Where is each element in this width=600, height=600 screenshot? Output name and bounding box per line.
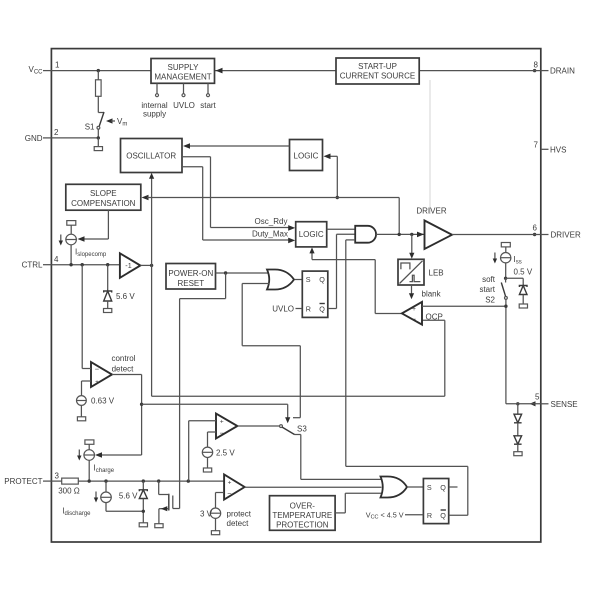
block LOGIC U1 (top) <box>290 140 323 171</box>
svg-text:−: − <box>227 489 232 498</box>
svg-text:detect: detect <box>227 519 250 528</box>
node PROTECT junctions <box>88 479 91 482</box>
current source Icharge <box>77 440 115 481</box>
terminal start <box>200 83 216 110</box>
wire CTRL <box>51 264 120 266</box>
wire OCP output to LOGIC2 bottom <box>309 247 402 313</box>
svg-text:2: 2 <box>54 128 59 137</box>
svg-text:DRAIN: DRAIN <box>550 67 575 76</box>
current source Islopecomp <box>59 221 107 265</box>
svg-text:OVER-: OVER- <box>290 502 316 511</box>
ground symbol below 0.63V source <box>77 417 85 421</box>
svg-text:Iss: Iss <box>514 255 522 265</box>
or-gate OR2 (protection set) <box>381 477 408 498</box>
ground below S1 <box>94 138 102 151</box>
node POR output branch <box>224 271 227 274</box>
svg-text:5: 5 <box>535 392 540 401</box>
svg-text:Q: Q <box>319 304 325 313</box>
rail symbol below zener D2 <box>519 304 527 308</box>
switch S1 <box>85 112 104 138</box>
svg-text:1: 1 <box>55 60 60 69</box>
svg-text:Q: Q <box>440 511 446 520</box>
label VCC < 4.5 V at FF2 R <box>366 511 424 521</box>
svg-text:300 Ω: 300 Ω <box>58 487 80 496</box>
or-gate OR1 (UVLO set) <box>267 270 294 290</box>
amplifier -1 <box>120 253 152 277</box>
ground symbol below S1 <box>94 147 102 151</box>
resistor R2 300 ohm body <box>62 478 79 484</box>
wire S3 contact to OR1 lower input <box>242 284 300 418</box>
pin 7 HVS <box>534 140 567 154</box>
wire oscillator control (vertical) <box>149 173 154 396</box>
svg-text:S1: S1 <box>85 123 95 132</box>
node S2 / OCP+ junction <box>504 305 507 308</box>
svg-text:UVLO: UVLO <box>272 305 294 314</box>
svg-text:start: start <box>200 101 216 110</box>
node -1 output / osc feed junction <box>150 264 153 267</box>
svg-text:VCC < 4.5 V: VCC < 4.5 V <box>366 511 404 521</box>
svg-text:SLOPE: SLOPE <box>90 189 117 198</box>
svg-text:blank: blank <box>422 290 442 299</box>
wire faint vertical artifact right of start-up source <box>429 80 431 214</box>
resistor R1 body <box>96 80 102 97</box>
svg-text:0.5 V: 0.5 V <box>514 268 533 277</box>
wire Q to S3 actuator <box>142 404 291 423</box>
wire 2.5V comp output to S3 <box>237 425 279 427</box>
svg-text:SUPPLY: SUPPLY <box>168 63 200 72</box>
ground symbol below 3V source <box>211 531 219 535</box>
svg-text:8: 8 <box>534 60 539 69</box>
svg-text:GND: GND <box>25 134 43 143</box>
zener 0.5V clamp <box>506 268 533 309</box>
wire S3 to OR2 input 1 <box>301 478 382 480</box>
ground symbol below zener D1 <box>104 309 112 313</box>
current source Idischarge <box>62 481 143 517</box>
svg-text:CTRL: CTRL <box>22 261 43 270</box>
pin 5 SENSE <box>516 392 578 409</box>
svg-text:R: R <box>427 511 432 520</box>
ground symbol below zener D5 <box>139 523 147 527</box>
source 0.63V <box>77 381 115 421</box>
comparator protect detect <box>224 475 252 529</box>
block LEB <box>398 234 444 285</box>
svg-text:POWER-ON: POWER-ON <box>168 269 213 278</box>
svg-text:HVS: HVS <box>550 145 566 154</box>
svg-text:LOGIC: LOGIC <box>299 230 324 239</box>
wire feedback into LOGIC1 right <box>324 154 338 198</box>
ground symbol below transistor Q1 <box>155 524 163 528</box>
resistor 300 ohm <box>51 478 79 495</box>
svg-text:7: 7 <box>534 140 539 149</box>
svg-text:control: control <box>111 354 135 363</box>
wire control detect minus to CTRL <box>82 265 91 369</box>
svg-text:0.63 V: 0.63 V <box>91 397 115 406</box>
svg-text:LEB: LEB <box>429 269 444 278</box>
wire GND <box>51 137 98 139</box>
zener 5.6V at CTRL <box>104 265 136 313</box>
svg-text:6: 6 <box>533 224 538 233</box>
block OVER-TEMPERATURE PROTECTION <box>270 496 336 531</box>
svg-text:Icharge: Icharge <box>94 464 115 474</box>
svg-text:SENSE: SENSE <box>551 400 578 409</box>
svg-text:3 V: 3 V <box>200 510 213 519</box>
node driver line junctions <box>398 233 401 236</box>
block SLOPE COMPENSATION <box>66 184 141 210</box>
node CTRL junctions <box>69 263 72 266</box>
wire OCP plus to soft-start node <box>422 305 506 307</box>
svg-text:Osc_Rdy: Osc_Rdy <box>255 217 288 226</box>
wire FF2 Q stub <box>449 486 458 488</box>
pin 3 PROTECT <box>4 471 59 486</box>
node control detect out junction <box>140 403 143 406</box>
svg-text:+: + <box>95 379 99 386</box>
svg-text:OSCILLATOR: OSCILLATOR <box>126 152 176 161</box>
svg-text:DRIVER: DRIVER <box>416 207 446 216</box>
svg-text:+: + <box>228 479 232 486</box>
wire Osc_Rdy <box>182 157 295 231</box>
svg-text:VCC: VCC <box>28 65 43 75</box>
current source Iss <box>493 243 522 279</box>
flip-flop FF1 (UVLO latch) <box>302 271 328 317</box>
wire P oscillator net to OCP minus <box>152 320 445 396</box>
source 2.5V <box>202 432 235 472</box>
wire OR1 to FF1 S <box>295 279 303 281</box>
wire VCC rail <box>51 70 151 72</box>
block LOGIC U2 (pwm) <box>296 222 327 247</box>
svg-text:−: − <box>95 365 100 374</box>
terminal internal supply <box>141 83 167 118</box>
wire PROTECT net <box>78 480 224 482</box>
svg-text:S: S <box>427 483 432 492</box>
wire LOGIC2 out to AND input 1 <box>327 228 356 230</box>
node GND junction <box>97 136 100 139</box>
svg-text:OCP: OCP <box>426 313 443 322</box>
svg-text:RESET: RESET <box>177 279 204 288</box>
svg-text:PROTECT: PROTECT <box>4 477 42 486</box>
svg-text:Q: Q <box>319 275 325 284</box>
comparator control detect <box>91 354 136 387</box>
wire to SENSE pin <box>506 403 541 405</box>
wire LOGIC1 to OSCILLATOR <box>183 143 290 149</box>
wire supply mgmt to start-up source <box>215 70 337 72</box>
pin 4 CTRL <box>22 255 59 270</box>
zener 5.6V at PROTECT <box>119 481 148 527</box>
transistor Q1 (protect pull-down MOSFET) <box>155 481 180 528</box>
block START-UP CURRENT SOURCE <box>336 58 419 84</box>
svg-text:CURRENT SOURCE: CURRENT SOURCE <box>340 72 415 81</box>
svg-text:Q: Q <box>440 483 446 492</box>
wire control detect output <box>112 375 142 456</box>
svg-text:COMPENSATION: COMPENSATION <box>71 199 136 208</box>
svg-text:S3: S3 <box>297 425 307 434</box>
wire protect detect output to OR2 <box>245 486 382 488</box>
svg-text:S: S <box>306 275 311 284</box>
svg-text:Idischarge: Idischarge <box>62 507 91 517</box>
diodes at SENSE <box>514 404 522 456</box>
supply rail symbol above Islopecomp <box>67 221 76 226</box>
svg-text:5.6 V: 5.6 V <box>116 292 135 301</box>
svg-text:3: 3 <box>55 471 60 480</box>
wire LEB to OCP (blank) <box>409 285 442 299</box>
svg-text:MANAGEMENT: MANAGEMENT <box>154 73 211 82</box>
rail symbol below sense diodes <box>514 452 522 456</box>
svg-text:UVLO: UVLO <box>173 101 195 110</box>
svg-text:TEMPERATURE: TEMPERATURE <box>272 511 332 520</box>
wire start-up source to DRAIN pin <box>419 70 541 72</box>
wire POR to MOSFET gate <box>180 273 226 509</box>
supply rail symbol above Icharge <box>85 440 94 444</box>
pin 8 DRAIN <box>533 60 575 75</box>
wire slope compensation feed (from driver node) <box>142 195 400 235</box>
supply rail symbol above Iss <box>501 243 510 247</box>
svg-text:−: − <box>412 315 417 324</box>
svg-text:START-UP: START-UP <box>358 62 397 71</box>
node slope wire junction <box>336 196 339 199</box>
pin 2 GND <box>25 128 59 143</box>
svg-text:S2: S2 <box>485 296 495 305</box>
svg-text:detect: detect <box>112 365 135 374</box>
svg-text:Islopecomp: Islopecomp <box>75 248 107 258</box>
amplifier DRIVER <box>416 207 540 250</box>
svg-text:protect: protect <box>227 510 252 519</box>
block SUPPLY MANAGEMENT <box>151 59 215 84</box>
wire FF2 Qbar to AND input 3 <box>346 240 468 515</box>
switch S2 soft start <box>479 275 507 404</box>
switch S3 <box>280 425 308 480</box>
svg-text:soft: soft <box>482 275 496 284</box>
wire Icharge control <box>95 452 142 458</box>
node zener/Idischarge junction <box>142 510 145 513</box>
wire OR2 to FF2 S <box>407 486 423 488</box>
arrow into supply management <box>216 68 223 74</box>
svg-text:−: − <box>220 428 225 437</box>
wire POR output to OR1 <box>216 272 269 274</box>
comparator 2.5V <box>216 414 237 439</box>
svg-text:4: 4 <box>54 255 59 264</box>
pin 1 VCC <box>28 60 60 75</box>
wire AND1 output to DRIVER <box>376 232 425 238</box>
terminal UVLO <box>173 83 195 110</box>
svg-text:-1: -1 <box>125 261 131 270</box>
outer IC boundary box <box>51 49 540 542</box>
label UVLO at FF1 R <box>272 305 302 314</box>
label Vm with arrow <box>106 117 127 127</box>
svg-text:R: R <box>306 304 311 313</box>
svg-text:5.6 V: 5.6 V <box>119 492 138 501</box>
svg-text:Duty_Max: Duty_Max <box>252 230 288 239</box>
svg-text:DRIVER: DRIVER <box>551 231 581 240</box>
block POWER-ON RESET <box>166 264 216 290</box>
resistor R internal (VCC bleeder) <box>96 71 102 113</box>
svg-text:start: start <box>479 285 495 294</box>
svg-text:PROTECTION: PROTECTION <box>276 521 329 530</box>
comparator OCP <box>402 302 443 325</box>
svg-text:supply: supply <box>143 110 166 119</box>
wire OTP output to OR2 input 3 <box>335 493 382 513</box>
svg-text:Vm: Vm <box>117 117 127 127</box>
svg-text:LOGIC: LOGIC <box>294 152 319 161</box>
svg-text:+: + <box>412 306 416 313</box>
node soft-start top <box>504 277 507 280</box>
and-gate AND1 <box>355 226 376 243</box>
wire slope comp to Islopecomp <box>78 210 109 242</box>
node VCC/R junction <box>97 69 100 72</box>
source 3V <box>200 493 224 535</box>
ground symbol below 2.5V source <box>203 468 211 472</box>
wire Duty_Max <box>182 167 295 244</box>
svg-text:2.5 V: 2.5 V <box>216 449 235 458</box>
svg-text:+: + <box>220 418 224 425</box>
flip-flop FF2 (protection latch) <box>423 479 448 524</box>
pin 6 DRIVER <box>533 224 581 240</box>
wire 2.5V comp plus to PROTECT <box>189 421 216 481</box>
block OSCILLATOR <box>121 139 183 173</box>
wire FF1 Qbar to AND input 2 <box>328 234 355 308</box>
